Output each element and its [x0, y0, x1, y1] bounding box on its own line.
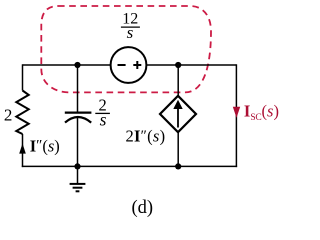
- svg-text:2I″(s): 2I″(s): [126, 127, 166, 146]
- short-circuit current arrow Isc(s): [233, 107, 240, 118]
- wire dependent-source branch upper: [177, 65, 179, 97]
- ground: [70, 166, 86, 191]
- wire left rail upper: [22, 64, 24, 90]
- wire capacitor branch lower: [77, 118, 79, 167]
- wire left rail lower: [22, 134, 24, 167]
- svg-text:s: s: [127, 23, 134, 42]
- wire top rail right segment: [147, 64, 237, 66]
- capacitor C 2/s: [65, 113, 92, 123]
- svg-text:s: s: [100, 110, 107, 130]
- dashed source-transformation boundary: [41, 6, 211, 92]
- svg-text:ISC(s): ISC(s): [244, 102, 279, 124]
- svg-text:(d): (d): [132, 198, 154, 218]
- label 12/s (source value): [121, 11, 140, 42]
- wire top rail left segment: [23, 64, 111, 66]
- node a (top of capacitor branch): [74, 62, 80, 68]
- node b (top of dependent source branch): [175, 62, 181, 68]
- svg-text:2: 2: [4, 106, 13, 125]
- wire capacitor branch upper: [77, 65, 79, 112]
- wire right rail: [235, 64, 237, 167]
- svg-text:I″(s): I″(s): [30, 136, 60, 155]
- dependent current source 2I''(s): [160, 96, 196, 132]
- wire dependent-source branch lower: [177, 132, 179, 167]
- wire bottom rail: [22, 165, 237, 167]
- label 2/s (capacitor value): [95, 96, 110, 130]
- node d (bottom of dependent source branch): [175, 163, 181, 169]
- resistor R 2: [16, 91, 28, 135]
- voltage source V 12/s: [111, 47, 147, 83]
- current arrow I''(s) on left branch: [19, 143, 26, 153]
- node c (bottom of capacitor branch): [74, 163, 80, 169]
